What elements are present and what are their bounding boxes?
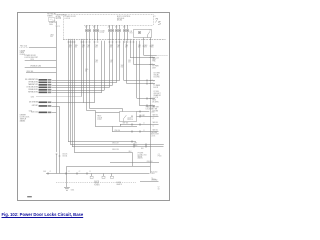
dashed connector row lower — [56, 182, 136, 184]
door lock actuator symbol x86.4 — [85, 29, 88, 32]
door lock actuator symbol x124.4 — [123, 29, 126, 32]
label hot-at-all-times — [47, 13, 56, 16]
pin tick x68.0 — [68, 39, 70, 41]
inline connector below row x124.4 — [124, 42, 126, 43]
left row label WHT/BLK 690 — [28, 92, 38, 94]
wire riser x133 — [133, 41, 135, 65]
mid label run y144.2 — [112, 142, 119, 144]
right text block 694 — [154, 73, 161, 75]
wire row ORG/BLK 691 — [52, 90, 104, 92]
pin tick x83.6 — [83, 39, 85, 41]
inline connector below row x94.4 — [94, 42, 96, 43]
splice dot S310 — [150, 64, 151, 65]
pin tick x119.8 — [119, 39, 121, 41]
connector bottom row 0 b — [140, 116, 141, 118]
label u-wire — [129, 151, 132, 153]
wire below symbol x86.4 — [86, 32, 88, 40]
wire riser x94 for row 688 — [94, 41, 96, 103]
wire right trunk — [150, 41, 152, 174]
wire riser WHT/BLK 690 — [101, 41, 103, 93]
row tick c — [77, 173, 78, 175]
wire below symbol x124.4 — [124, 32, 126, 40]
pin letters above pair x94.4 — [93, 26, 95, 29]
pin tick x143.6 — [143, 39, 145, 41]
wire below symbol x109.0 — [109, 32, 111, 40]
wire label under row 8 — [138, 44, 141, 47]
wire riser TAN/WHT 692 — [112, 41, 114, 86]
wire box bottom drop a — [112, 126, 114, 131]
wire label under row 5 — [110, 44, 113, 47]
right text near y178 — [151, 178, 154, 180]
label fuse 23 10A — [49, 22, 56, 24]
wire drop x86 to switch box corner — [87, 41, 96, 113]
connector on fuse drop bottom — [56, 154, 58, 155]
wire fuse to connector — [56, 21, 58, 25]
wire color tag WHT/BLK 690 — [39, 92, 48, 94]
tiny mark left of module — [60, 17, 61, 19]
wire riser GRY/BLK 695 — [116, 41, 118, 83]
right text block pass door — [153, 84, 160, 87]
label stub wire 0 — [20, 46, 27, 48]
wire pin stub x112.4 — [112, 25, 114, 29]
wire below symbol x127.8 — [127, 32, 129, 40]
inline connector below row x130.0 — [130, 42, 132, 43]
splice label S233 — [31, 96, 35, 98]
stub wire 2 — [25, 67, 57, 69]
connector run y141.8 — [132, 141, 133, 143]
inline connector below row x83.6 — [83, 42, 85, 43]
door lock actuator symbol x112.4 — [111, 29, 114, 32]
module box left dashed edge — [63, 14, 65, 39]
fuse element — [50, 19, 55, 21]
label C305 right — [151, 112, 155, 114]
page-exit squiggle S311 TAN — [151, 80, 155, 81]
right text block 687 — [152, 107, 159, 109]
wire row to trunk S312 GRY — [127, 83, 155, 85]
wire riser right-turn S313 BLU — [136, 41, 138, 98]
pin tick x89.6 — [89, 39, 91, 41]
wire color tag BLK 1550 row — [39, 112, 48, 114]
pin tick x133.4 — [133, 39, 135, 41]
wire drop x59 long — [59, 107, 61, 174]
wire pin stub x124.4 — [124, 25, 126, 29]
wire row to trunk S311 TAN — [123, 80, 154, 82]
wire bottom row 2 — [112, 131, 159, 133]
label bottom right row — [152, 179, 155, 181]
label bottom row left — [43, 171, 46, 173]
stub wire 3 — [26, 72, 56, 74]
label stub wires header — [24, 55, 36, 57]
wire row blk 1550 — [52, 112, 57, 114]
switch box interior text — [97, 115, 101, 118]
wire below symbol x119.8 — [119, 32, 121, 40]
page-exit squiggle S314 PNK — [151, 105, 155, 106]
wire drop x143 down — [143, 41, 145, 56]
page grid ref 5 — [158, 21, 161, 27]
relay switch symbol — [148, 31, 150, 34]
pin tick x74.0 — [74, 39, 76, 41]
pin tick x116.4 — [116, 39, 118, 41]
connector bottom row 2 a — [132, 131, 133, 133]
wire right row S310 — [133, 64, 154, 66]
wire cluster drop x91.6 — [91, 173, 93, 176]
wire bundle drop x74 — [74, 41, 76, 153]
component label driver door lock switch — [20, 115, 27, 117]
wire switch to trunk — [137, 111, 150, 113]
cluster connector symbol x103.5 — [102, 176, 105, 178]
vertical wire label WHT 690 — [121, 65, 124, 67]
left row label DK GRN 688 — [29, 102, 38, 104]
cluster connector symbol x91.6 — [90, 176, 93, 178]
wire cluster drop x103.5 — [103, 173, 105, 176]
tick label d — [89, 171, 91, 173]
page-exit squiggle S313 BLU — [151, 98, 155, 99]
connector run y144.2 a — [134, 144, 135, 146]
wire row dk grn 688 — [52, 102, 95, 104]
right label S316 — [152, 100, 156, 102]
wire label under row 2 — [82, 44, 85, 47]
module left inner text — [65, 16, 77, 18]
connector C2 on fuse feed — [56, 26, 58, 27]
page grid ref 7 — [155, 18, 159, 24]
inline connector below row x81.2 — [81, 42, 83, 43]
wire riser ORG/BLK 691 — [104, 41, 106, 91]
wire bundle drop x83 to row 688 — [83, 41, 85, 103]
wire riser right-turn S314 PNK — [139, 41, 141, 106]
fuse F23 box — [49, 18, 55, 22]
wire bundle run y146.8 — [72, 146, 164, 148]
connector bottom row 0 a — [132, 116, 133, 118]
inline connector below row x97.8 — [97, 42, 99, 43]
door lock relay box — [134, 30, 152, 38]
row tick b — [66, 173, 67, 175]
wire label under row 1 — [75, 44, 78, 47]
wire to page exit — [144, 55, 157, 57]
right label to pwr dist — [152, 66, 159, 68]
left component text block — [20, 50, 26, 52]
mid label bottom row 0 — [139, 114, 145, 117]
wire label under row 3 — [87, 44, 90, 47]
wire riser DK GRN/WHT 694 — [119, 41, 121, 81]
label bottom row 2 — [152, 129, 158, 132]
figure caption link — [2, 212, 84, 217]
right text block 693 — [154, 91, 160, 93]
wire color tag LT BLU/BLK 693 — [39, 87, 48, 89]
pin tick x81.2 — [81, 39, 83, 41]
pin tick x112.4 — [112, 39, 114, 41]
wire relay drop 2 — [150, 38, 152, 40]
wire label under row 0 — [69, 44, 72, 47]
switch inner box — [120, 112, 137, 122]
inline connector below row x74.0 — [74, 42, 76, 43]
wire relay drop 1 — [143, 38, 145, 40]
wire label under row 4 — [95, 44, 98, 47]
center-bottom text block — [138, 153, 145, 155]
connector bottom row 1 a — [132, 124, 133, 126]
inline connector below row x89.6 — [89, 42, 91, 43]
connector on trunk — [150, 46, 152, 47]
small text bottom right — [158, 187, 160, 189]
label lock — [127, 118, 131, 120]
left row label GRY/BLK 695 — [28, 82, 38, 84]
mid label bottom row 2 — [115, 130, 121, 132]
stub wire 0 — [29, 47, 56, 49]
label stub wire 1 — [24, 57, 38, 59]
wire pin stub x109.0 — [109, 25, 111, 29]
right text block 3 — [151, 132, 157, 134]
wire color tag ORG/BLK 691 — [39, 89, 48, 91]
wire below symbol x112.4 — [112, 32, 114, 40]
door lock actuator symbol x127.8 — [126, 29, 129, 32]
wire row DK GRN/WHT 694 — [52, 80, 120, 82]
wire row WHT/BLK 690 — [52, 92, 102, 94]
label G301 — [71, 189, 75, 191]
inline connector below row x119.8 — [119, 42, 121, 43]
wire riser right-turn S312 GRY — [126, 41, 128, 84]
left row label ORG/BLK 691 — [28, 89, 38, 91]
page-exit squiggle S312 GRY — [151, 83, 155, 84]
wire label under row 9 — [144, 44, 147, 47]
label bottom row right — [151, 171, 157, 173]
door lock actuator symbol x89.6 — [88, 29, 91, 32]
wire bundle drop x70 — [70, 41, 72, 145]
inline connector below row x116.4 — [116, 42, 118, 43]
faint row S233 — [36, 96, 81, 98]
wire row GRY/BLK 695 — [52, 82, 117, 84]
wire pin stub x119.8 — [119, 25, 121, 29]
label cluster a — [94, 181, 100, 183]
wire y166 to trunk — [133, 166, 150, 168]
pin tick x86.4 — [86, 39, 88, 41]
label run y146.8 — [134, 145, 137, 147]
page-exit squiggle S310 — [151, 64, 155, 65]
wire drop x89 to switch inner box — [90, 41, 123, 112]
module box top dashed edge — [63, 14, 153, 16]
wire u-route tail down — [66, 166, 68, 173]
mid label bottom row 1 — [123, 122, 129, 124]
wire riser LT BLU/BLK 693 — [109, 41, 111, 88]
cluster connector symbol x111.9 — [110, 176, 113, 178]
wire color tag GRY/BLK 695 — [39, 82, 48, 84]
pin tick x70.0 — [70, 39, 72, 41]
switch box bottom edge — [95, 126, 137, 128]
pin tick x124.4 — [124, 39, 126, 41]
page border frame — [18, 13, 170, 201]
wire row to trunk S314 PNK — [139, 105, 154, 107]
vertical wire label ORG 691 — [85, 69, 88, 71]
pin tick x94.4 — [94, 39, 96, 41]
pin tick x72.0 — [72, 39, 74, 41]
label bottom row 1 — [152, 121, 158, 124]
tick label b — [68, 171, 70, 173]
pin tick x127.8 — [127, 39, 129, 41]
label run y146.8 b — [141, 148, 144, 150]
dashed page exit wire — [156, 55, 168, 57]
label relay left — [130, 31, 133, 33]
splice dot S313 BLU — [150, 98, 151, 99]
wire right row S309 — [130, 57, 155, 59]
wire pin stub x94.4 — [94, 25, 96, 29]
connector S314 PNK — [147, 105, 148, 107]
stub wire 1 — [25, 60, 57, 62]
wire bundle drop x68 — [68, 41, 70, 142]
label pass door switch — [146, 106, 156, 109]
connector S311 TAN — [147, 80, 148, 82]
pin letters above pair x109.0 — [108, 26, 110, 29]
wire bundle run y144.2 — [70, 144, 164, 146]
wire color tag DK GRN 688 — [39, 101, 48, 103]
wire pin stub x86.4 — [86, 25, 88, 29]
wire label under row 6 — [117, 44, 120, 47]
wire pin stub x89.6 — [89, 25, 91, 29]
label fuse block — [56, 15, 67, 17]
splice dot S312 GRY — [150, 83, 151, 84]
connector C1 dashed row — [63, 39, 166, 41]
wire pin stub x116.4 — [116, 25, 118, 29]
inline connector below row x68.0 — [68, 42, 70, 43]
wire cluster drop x111.9 — [111, 173, 113, 176]
wire bottom connector row — [46, 173, 150, 175]
vertical wire label GRY 695 — [110, 60, 113, 62]
label S206 — [29, 111, 33, 113]
splice dot S309 — [150, 57, 151, 58]
mid label run y152.8 — [112, 149, 119, 151]
left row label GRY 687 — [32, 105, 38, 107]
wire u-route — [67, 153, 133, 167]
switch lever symbol — [123, 115, 126, 119]
wire label org — [50, 35, 54, 37]
label stub wire 3 — [26, 71, 33, 73]
vertical wire label TAN 692 — [95, 59, 98, 62]
door lock actuator symbol x116.4 — [115, 29, 118, 32]
page-exit squiggle S309 — [151, 57, 155, 58]
pin letters above pair x124.4 — [123, 26, 125, 29]
label exit wire — [152, 57, 159, 59]
dashed stub prefix left — [20, 47, 30, 49]
splice dot S311 TAN — [150, 80, 151, 81]
wire bottom row 1 — [120, 124, 159, 126]
wire below symbol x94.4 — [94, 32, 96, 40]
door lock actuator symbol x94.4 — [93, 29, 96, 32]
left row label DK GRN/WHT 694 — [25, 79, 38, 81]
wire fuse drop tail — [56, 154, 58, 174]
wire box bottom drop b — [120, 124, 122, 126]
connector bottom row 1 b — [140, 124, 141, 126]
connector run y146.8 b — [146, 146, 147, 148]
wire fuse feed drop upper — [56, 26, 58, 60]
wire bundle drop x81 to faint row — [81, 41, 83, 97]
pin letters above pair x116.4 — [115, 26, 117, 29]
wire bundle run y141.8 — [68, 141, 136, 143]
label door lock motors — [100, 30, 106, 32]
left row label BLK 1550 row — [31, 112, 38, 114]
pin tick x97.8 — [97, 39, 99, 41]
wire color tag GRY 687 — [39, 105, 48, 107]
inline connector below row x109.0 — [109, 42, 111, 43]
wire color tag TAN/WHT 692 — [39, 84, 48, 86]
wire fuse feed drop long — [56, 61, 58, 153]
wire below symbol x97.8 — [97, 32, 99, 40]
label bottom row 0 — [152, 114, 158, 117]
module box right dashed edge — [153, 14, 155, 25]
right small text C2 — [158, 154, 160, 156]
wire pin stub x97.8 — [97, 25, 99, 29]
wire row gry 687 — [52, 106, 60, 108]
splice dot S314 PNK — [150, 105, 151, 106]
wire pin stub x127.8 — [127, 25, 129, 29]
wire below symbol x116.4 — [116, 32, 118, 40]
wire bundle drop x72 — [72, 41, 74, 147]
bottom-left tick mark — [27, 196, 32, 197]
wire riser right-turn S311 TAN — [123, 41, 125, 80]
label row y162.7 — [147, 161, 153, 163]
pin tick x109.0 — [109, 39, 111, 41]
vertical wire label PNK 694 — [128, 60, 131, 62]
connector on second drop bottom — [59, 156, 61, 157]
connector S312 GRY — [147, 83, 148, 85]
passenger lock switch box left and top — [96, 113, 120, 127]
wire below symbol x89.6 — [89, 32, 91, 40]
pin tick x130.0 — [130, 39, 132, 41]
connector run y144.2 b — [146, 144, 147, 146]
wire row to trunk S313 BLU — [137, 98, 155, 100]
wire row y162.7 — [110, 162, 159, 164]
wire row TAN/WHT 692 — [52, 85, 113, 87]
wire bottom row 0 — [137, 116, 159, 118]
connector sw a — [140, 111, 141, 113]
inline connector below row x72.0 — [72, 42, 74, 43]
door lock actuator symbol x119.8 — [118, 29, 121, 32]
row tick a — [48, 173, 49, 175]
wire row LT BLU/BLK 693 — [52, 87, 109, 89]
wire label under row 10 — [151, 44, 154, 47]
inline connector below row x133.4 — [133, 42, 135, 43]
wire color tag DK GRN/WHT 694 — [39, 79, 48, 81]
door lock actuator symbol x109.0 — [108, 29, 111, 32]
connector on x143 — [143, 46, 145, 47]
label body control module — [117, 16, 131, 18]
tiny label above 75 — [154, 16, 156, 18]
inline connector below row x127.8 — [127, 42, 129, 43]
left row label TAN/WHT 692 — [28, 83, 38, 86]
module box bottom dashed edge — [84, 25, 153, 27]
svg-text:(BCM): (BCM) — [117, 20, 122, 22]
wire bottom right row y181 — [140, 181, 159, 183]
inline connector below row x70.0 — [70, 42, 72, 43]
svg-text:TIMES: TIMES — [47, 16, 53, 18]
inline connector below row x86.4 — [86, 42, 88, 43]
label cluster b — [116, 182, 121, 184]
row tick d — [87, 173, 88, 175]
wire ground drop — [66, 173, 68, 187]
wire riser x130 — [130, 41, 132, 58]
left row label LT BLU/BLK 693 — [27, 87, 39, 89]
connector run y146.8 a — [134, 146, 135, 148]
label run y144.2 — [134, 142, 137, 144]
relay coil symbol — [138, 31, 141, 34]
connector bottom row 2 b — [140, 131, 141, 133]
connector S313 BLU — [147, 98, 148, 100]
svg-text:5: 5 — [158, 21, 161, 27]
pin letters above pair x86.4 — [85, 26, 87, 29]
tick label c — [79, 171, 81, 173]
door lock actuator symbol x97.8 — [96, 29, 99, 32]
inline connector below row x112.4 — [112, 42, 114, 43]
tick label a — [49, 171, 51, 173]
wire label under row 7 — [125, 44, 128, 47]
right label S301 — [152, 59, 156, 61]
label stub wire 2 — [30, 66, 41, 68]
